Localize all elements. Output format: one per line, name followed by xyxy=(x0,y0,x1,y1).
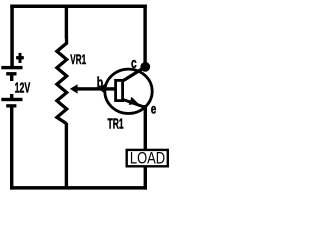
wire bottom rail xyxy=(10,186,147,190)
VR1 wiper arrowhead xyxy=(70,84,78,93)
base junction blob at transistor circle xyxy=(98,83,105,94)
potentiometer VR1 zigzag xyxy=(57,36,67,124)
svg-text:TR1: TR1 xyxy=(108,116,124,132)
junction dot collector node xyxy=(140,62,150,72)
wire stub below cell1 xyxy=(10,75,13,81)
wire emitter to LOAD xyxy=(144,105,147,150)
battery B1 plus sign xyxy=(16,53,24,63)
transistor TR1 base bar xyxy=(116,80,123,100)
svg-text:LOAD: LOAD xyxy=(130,149,165,168)
svg-text:12V: 12V xyxy=(15,81,31,97)
transistor TR1 emitter arrowhead xyxy=(129,97,139,105)
wire VR1 bottom lead xyxy=(65,123,68,189)
wire LOAD to bottom rail xyxy=(144,166,147,190)
wire left lower (battery negative to bottom rail) xyxy=(10,107,13,190)
battery B1 cell1 short plate xyxy=(6,72,16,75)
battery B1 cell1 long plate xyxy=(1,66,22,69)
wire top rail xyxy=(10,5,147,9)
wire VR1 top lead xyxy=(65,5,68,38)
LOAD box xyxy=(127,150,168,166)
battery B1 cell2 long plate xyxy=(1,98,22,101)
battery B1 cell2 short plate xyxy=(6,104,16,107)
wire stub above cell2 xyxy=(10,94,13,99)
svg-text:c: c xyxy=(131,55,137,72)
transistor TR1 collector lead xyxy=(124,67,146,81)
svg-text:e: e xyxy=(151,102,157,118)
wire right upper (top rail to collector node) xyxy=(143,5,146,67)
wire left upper (battery top lead) xyxy=(10,5,14,68)
wire wiper to base xyxy=(77,87,116,90)
svg-text:VR1: VR1 xyxy=(70,51,86,67)
transistor TR1 emitter lead xyxy=(123,100,146,108)
transistor TR1 circle xyxy=(105,69,152,113)
svg-text:b: b xyxy=(97,75,104,91)
